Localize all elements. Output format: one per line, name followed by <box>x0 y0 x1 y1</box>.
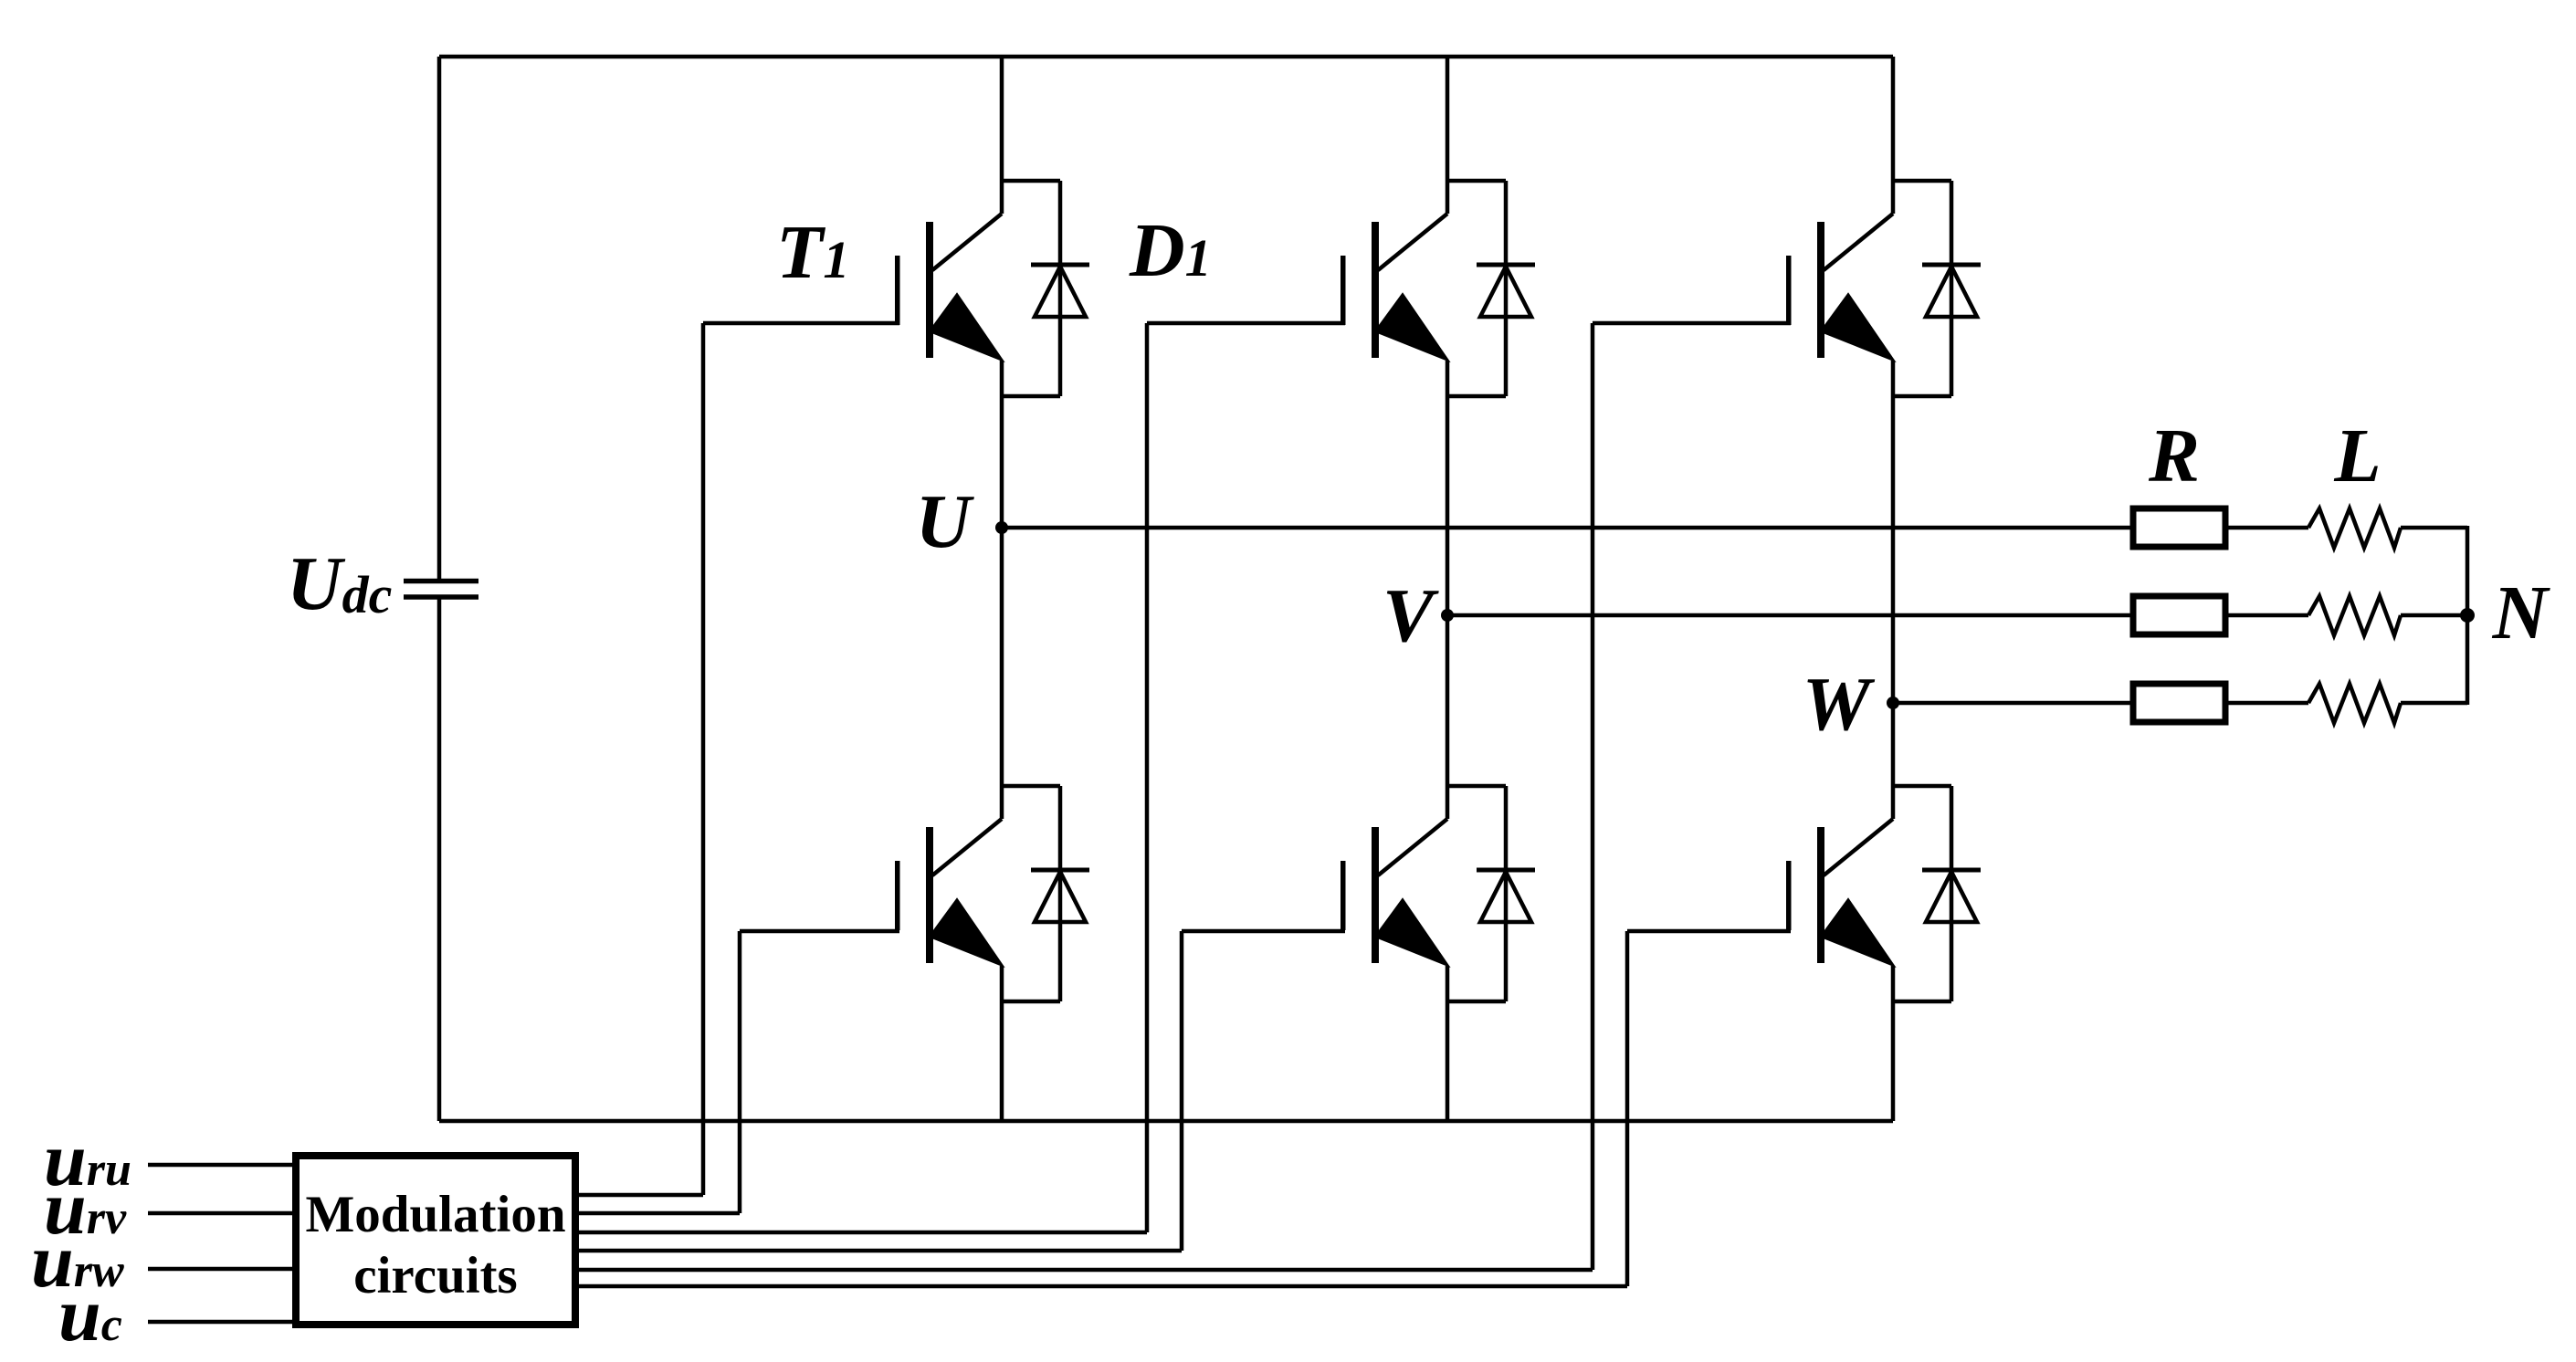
diode D4 <box>1002 786 1089 1001</box>
wire: modulation output to T2 gate <box>575 931 1791 1286</box>
transistor T6 <box>1341 819 1448 966</box>
inductor L (W phase) <box>2308 684 2401 723</box>
node U <box>995 521 1008 534</box>
diode D3 <box>1447 181 1535 396</box>
transistor T1 <box>895 214 1003 361</box>
transistor T2 <box>1786 819 1894 966</box>
wire: input u_c <box>148 1320 296 1325</box>
svg-text:L: L <box>2333 414 2381 498</box>
svg-text:N: N <box>2492 571 2551 655</box>
resistor R (U phase) <box>2133 508 2225 547</box>
resistor R (W phase) <box>2133 684 2225 722</box>
wire: input u_rv <box>148 1211 296 1216</box>
svg-text:V: V <box>1383 573 1439 658</box>
svg-text:circuits: circuits <box>353 1247 517 1304</box>
diode D5 <box>1893 181 1981 396</box>
transistor T5 <box>1786 214 1894 361</box>
transistor T3 <box>1341 214 1448 361</box>
wire: modulation output to T6 gate <box>575 931 1345 1251</box>
wire: phase U output line <box>1002 526 2467 530</box>
diode D1 <box>1002 181 1089 396</box>
wire: input u_ru <box>148 1163 296 1168</box>
capacitor Udc <box>404 581 478 598</box>
wire: phase leg 1 vertical <box>1000 57 1004 1121</box>
inductor L (V phase) <box>2308 596 2401 635</box>
wire: DC link left rail upper <box>437 57 442 579</box>
wire: phase leg 2 vertical <box>1446 57 1450 1121</box>
wire: phase leg 3 vertical <box>1891 57 1896 1121</box>
wire: input u_rw <box>148 1267 296 1272</box>
wire: modulation output to T3 gate <box>575 323 1345 1232</box>
wire: load neutral connector <box>2466 526 2470 705</box>
wire: modulation output to T1 gate <box>575 323 899 1195</box>
svg-text:Modulation: Modulation <box>305 1186 565 1243</box>
svg-text:W: W <box>1803 662 1876 747</box>
wire: modulation output to T4 gate <box>575 931 899 1213</box>
diode D2 <box>1893 786 1981 1001</box>
wire: phase W output line <box>1893 701 2467 706</box>
wire: modulation output to T5 gate <box>575 323 1791 1270</box>
top DC bus <box>439 55 1893 59</box>
bottom DC bus <box>439 1119 1893 1124</box>
transistor T4 <box>895 819 1003 966</box>
svg-text:R: R <box>2148 414 2200 498</box>
wire: DC link left rail lower <box>437 600 442 1122</box>
svg-text:U: U <box>916 479 975 564</box>
wire: phase V output line <box>1447 613 2467 618</box>
modulation circuits block <box>296 1156 575 1325</box>
resistor R (V phase) <box>2133 596 2225 634</box>
node N <box>2460 608 2475 623</box>
inductor L (U phase) <box>2308 508 2401 548</box>
node W <box>1887 697 1899 709</box>
diode D6 <box>1447 786 1535 1001</box>
node V <box>1441 609 1454 622</box>
